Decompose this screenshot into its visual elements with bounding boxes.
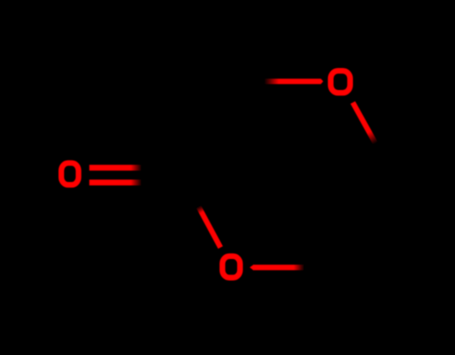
bond C2-O1 (carbonyl carbon to ring oxygen, fades at C2 end) [199,207,221,248]
atom O1 (ring oxygen, bottom) [222,256,240,277]
atom O4 (ring oxygen, top) [331,71,350,93]
double bond C2=O (lower line) [89,180,142,186]
bond O4-C5 (diagonal, fades at C5 end) [353,103,376,144]
atom O (exocyclic carbonyl oxygen) [61,163,78,185]
bond C3-O4 (horizontal into top oxygen, fades at C3 end) [265,79,324,84]
bond O1-C6 (horizontal, fades at C6 end) [250,265,305,271]
double bond C2=O (upper line) [89,165,142,171]
